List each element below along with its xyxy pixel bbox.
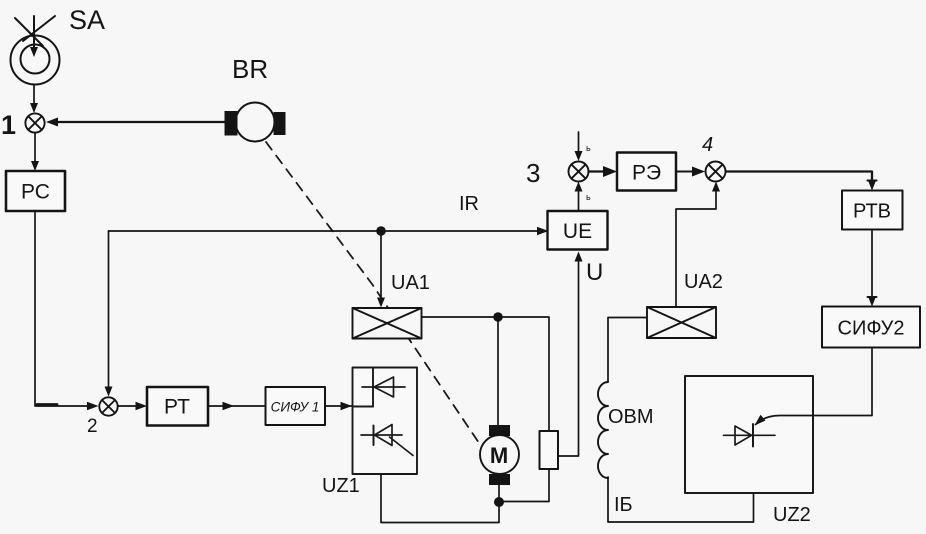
wire RE to node 4 [676, 167, 705, 177]
svg-text:UA1: UA1 [391, 272, 430, 294]
svg-text:BR: BR [232, 54, 268, 84]
svg-text:4: 4 [702, 134, 713, 156]
svg-text:2: 2 [87, 416, 98, 437]
label 2 [87, 416, 98, 437]
wire IR line down to node 2 [105, 231, 113, 397]
svg-text:IR: IR [459, 193, 479, 215]
svg-text:U: U [586, 259, 603, 286]
wire RTV to SIFU2 [868, 230, 877, 307]
multiplier UA1 [353, 308, 422, 339]
field winding OVM coil [598, 382, 608, 478]
relay regulator RE box [617, 153, 676, 191]
label IR [459, 193, 479, 215]
svg-text:UZ2: UZ2 [773, 504, 811, 526]
node 3 (summing junction) [569, 162, 589, 182]
svg-text:SA: SA [69, 5, 105, 35]
svg-text:ІБ: ІБ [614, 494, 633, 516]
svg-text:3: 3 [526, 158, 540, 188]
wire PT to SIFU1 [208, 402, 265, 410]
mechanical link BR to M (dashed) [266, 142, 479, 443]
regulator PT box [147, 387, 208, 426]
wire BR to node 1 [46, 118, 225, 127]
wire UA2 up to node 4 [676, 182, 720, 308]
regulator PC box [6, 171, 65, 211]
svg-text:UZ1: UZ1 [322, 475, 360, 497]
svg-text:РЭ: РЭ [632, 162, 661, 185]
wire UE top to node 3 [575, 182, 583, 212]
svg-text:СИФУ 1: СИФУ 1 [271, 400, 320, 415]
svg-text:РТ: РТ [164, 396, 190, 419]
wire motor bottom to junction dot [498, 485, 500, 499]
thyristor in UZ1 [361, 425, 413, 456]
SIFU2 box [822, 307, 920, 348]
wire SA to node 1 [30, 85, 38, 114]
wire dot down to motor [497, 317, 499, 425]
svg-text:РТВ: РТВ [853, 201, 891, 223]
junction dot on UA1 output [493, 312, 503, 322]
svg-text:ОВМ: ОВМ [608, 406, 654, 428]
node 2 to PT wire [118, 402, 147, 410]
label M [490, 443, 508, 468]
tachogenerator BR [225, 103, 286, 142]
node 1 (summing junction) [25, 113, 44, 132]
wire UZ2 bottom to field circuit [608, 477, 754, 522]
command device SA [11, 16, 60, 85]
label 4 [702, 134, 713, 156]
svg-text:СИФУ2: СИФУ2 [838, 318, 905, 340]
wire UZ1 bottom to motor circuit [381, 474, 499, 523]
label 3 [526, 158, 540, 188]
motor M [480, 425, 519, 485]
small mark b upper [586, 143, 591, 153]
wire SIFU2 to UZ2 gate [755, 348, 873, 426]
label OVM [608, 406, 654, 428]
thyristor in UZ2 [724, 424, 776, 447]
wire junction dot down to UA1 [377, 231, 385, 308]
converter UZ2 box [685, 376, 813, 493]
junction dot on IR line [376, 226, 386, 236]
wire input into node 3 from top [575, 132, 583, 161]
wire node 3 to RE [589, 166, 617, 177]
diode in UZ1 [362, 377, 405, 397]
junction dot under motor [494, 497, 504, 507]
svg-text:1: 1 [1, 110, 16, 140]
svg-text:UA2: UA2 [684, 271, 723, 293]
wire dot to resistor bottom [499, 469, 549, 502]
regulator RTV box [842, 191, 903, 230]
label SA [69, 5, 105, 35]
wire UA2 to coil top [608, 318, 647, 383]
node 4 (summing junction) [706, 162, 726, 182]
svg-text:ь: ь [586, 143, 591, 153]
SIFU1 box [266, 387, 326, 425]
label UA1 [391, 272, 430, 294]
converter UZ1 box [353, 368, 418, 475]
svg-text:UЕ: UЕ [563, 220, 592, 243]
svg-text:РС: РС [21, 181, 50, 204]
wire IR feedback (horizontal) [109, 227, 549, 235]
svg-text:ь: ь [586, 192, 591, 202]
svg-text:М: М [490, 443, 508, 468]
label UZ1 [322, 475, 360, 497]
label IB [614, 494, 633, 516]
wire UA1 output to resistor top [422, 317, 550, 431]
label 1 [1, 110, 16, 140]
multiplier UA2 [647, 307, 716, 338]
wire node 1 to PC [31, 133, 39, 171]
block UE [548, 211, 608, 250]
node 2 (summing junction) [99, 397, 117, 415]
wire PC to node 2 [35, 211, 99, 410]
wire node 4 to RTV [726, 172, 877, 191]
wire U sense to UE [558, 252, 583, 457]
label UA2 [684, 271, 723, 293]
label BR [232, 54, 268, 84]
label U [586, 259, 603, 286]
label UZ2 [773, 504, 811, 526]
small mark b lower [586, 192, 591, 202]
resistor (shunt) [540, 431, 559, 469]
wire SIFU1 to UZ1 [325, 402, 352, 410]
